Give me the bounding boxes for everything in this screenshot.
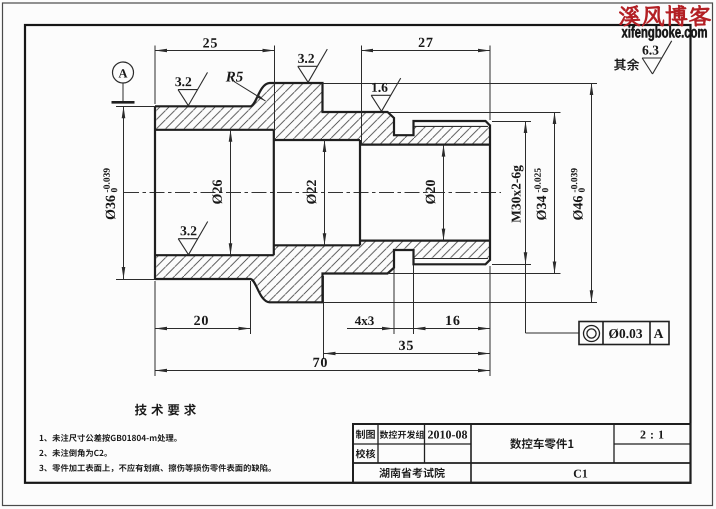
hatch section upper-left <box>155 83 274 130</box>
tolerance frame box <box>579 322 669 345</box>
dim 70 line <box>155 370 490 372</box>
qiyu text <box>614 58 639 70</box>
bore wall bottom (d22) <box>274 244 360 246</box>
ext lines d46 <box>323 83 598 85</box>
datum A circle <box>113 62 134 83</box>
roughness 3.2 in d26 bore <box>178 222 208 255</box>
ext lines M30 <box>492 121 531 123</box>
part centerline <box>124 192 501 194</box>
ext line x=250.5 down <box>250 281 252 334</box>
dim 16 line <box>414 328 491 330</box>
dim M30 line <box>525 121 527 264</box>
hatch section upper-middle <box>274 83 360 140</box>
dim d26 label <box>212 180 222 204</box>
dim d34 line <box>554 112 556 274</box>
title block zhitu <box>356 430 375 439</box>
hatch section lower-left <box>155 255 274 302</box>
dim d34 label <box>537 196 547 220</box>
bore wall bottom (d26) <box>155 254 274 256</box>
ext line x=490 down <box>489 266 491 376</box>
dim d20 line <box>443 145 445 241</box>
dim 20 text <box>194 316 208 325</box>
dim 20 line <box>155 328 251 330</box>
bore step d26-d22 <box>273 130 275 255</box>
title block date <box>428 431 467 439</box>
tech requirements title <box>135 404 196 416</box>
tech req line 2 <box>39 449 107 457</box>
datum A letter <box>119 69 128 77</box>
dim d22 label <box>307 180 317 204</box>
bore step d22-d20 <box>359 140 361 245</box>
part outline bottom profile <box>155 250 490 302</box>
bore wall top (d22) <box>274 139 360 141</box>
dim d36 line <box>123 106 125 279</box>
bore wall bottom (d20) <box>360 240 490 242</box>
dim 25 line <box>155 50 275 52</box>
dim d36 label <box>106 196 116 220</box>
part right end face <box>489 125 491 261</box>
datum A stem <box>122 83 124 101</box>
roughness 6.3 default (qiyu) <box>642 41 672 74</box>
datum A base bar <box>112 101 135 104</box>
ext line x=274.5 (dim 25/bore step) <box>274 46 276 141</box>
dim d46 line <box>591 83 593 302</box>
bore wall top (d26) <box>155 129 274 131</box>
site logo chinese <box>619 5 710 26</box>
thread minor line bottom <box>414 258 489 260</box>
site logo url <box>622 26 707 41</box>
ext lines d36 <box>116 106 155 108</box>
dim d46 label <box>573 196 583 220</box>
thread minor line top <box>414 125 489 127</box>
R5 leader <box>234 82 266 102</box>
ext line x=361 (dim 27) <box>361 46 363 146</box>
roughness 3.2 on d36 surface <box>175 72 207 105</box>
ext lines d34 <box>389 112 561 114</box>
ext line x=323 down <box>323 276 325 359</box>
dim 25 text <box>203 38 217 47</box>
dim d26 line <box>230 130 232 255</box>
dim 4x3 line+arrow <box>347 328 414 330</box>
title block org <box>379 468 444 478</box>
dim 70 text <box>313 358 327 367</box>
ext line x=413.5 down <box>413 265 415 334</box>
dim 4x3 text <box>355 316 374 325</box>
dim 27 line <box>361 50 490 52</box>
bore wall top (d20) <box>360 144 490 146</box>
part outline top profile <box>155 83 490 135</box>
ext line right face up <box>489 46 491 121</box>
tech req line 3 <box>39 464 271 472</box>
ext line x=394 down <box>393 268 395 334</box>
tolerance value <box>609 329 642 339</box>
ext line x=155 down <box>154 281 156 376</box>
dim d22 line <box>324 140 326 245</box>
roughness 1.6 on d34 surface <box>371 78 401 111</box>
hatch section lower-middle <box>274 245 360 302</box>
tolerance datum letter <box>654 329 664 338</box>
title block scale <box>641 431 664 439</box>
title block drawing no <box>574 470 587 478</box>
R5 text <box>226 72 243 82</box>
dim 16 text <box>446 316 459 325</box>
hatch section upper-right <box>360 112 490 145</box>
tech req line 1 <box>40 434 177 442</box>
concentricity symbol <box>584 326 600 342</box>
dim 35 line <box>324 353 491 355</box>
dim 27 text <box>419 38 433 47</box>
hatch section lower-right <box>360 241 490 274</box>
part left end face <box>154 106 156 279</box>
title block jiaohe <box>356 449 376 459</box>
dim M30 label <box>512 165 524 222</box>
title block dev group <box>380 430 425 439</box>
dim d20 label <box>426 180 436 204</box>
tolerance leader <box>525 264 527 333</box>
title block part name <box>510 438 573 449</box>
title block grid <box>353 424 691 483</box>
ext line left face up <box>154 46 156 105</box>
dim 35 text <box>399 341 413 350</box>
roughness 3.2 on d46 surface <box>298 49 328 82</box>
